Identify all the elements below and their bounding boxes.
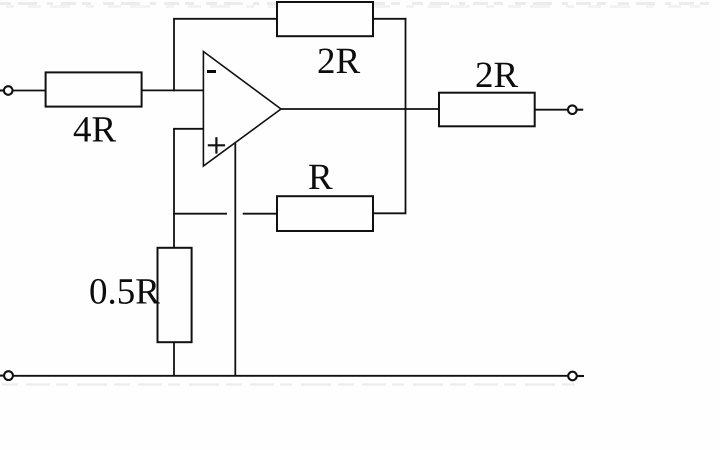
wire op-amp output to 2R output resistor <box>281 108 439 110</box>
wire 2R output to output terminal <box>535 109 568 111</box>
wire 0.5R bottom to rail <box>173 342 175 376</box>
input terminal (left circle) <box>0 86 13 95</box>
wire input terminal to 4R <box>13 90 46 92</box>
label 4R <box>74 117 116 141</box>
resistor R body <box>277 196 373 231</box>
wire to op-amp non-inverting input <box>173 128 203 130</box>
resistor 0.5R body (vertical) <box>158 248 192 342</box>
scan artifact: faint dashed strip along top edge <box>0 4 718 7</box>
op-amp U1 triangle <box>203 52 281 167</box>
wire right feedback drop (vertical at x=405.5) <box>405 18 407 214</box>
label 2R feedback <box>319 49 360 74</box>
wire top feedback right segment <box>373 18 406 20</box>
wire R to right feedback drop <box>373 212 406 214</box>
wire hanging from op-amp lower edge down to bottom rail (x=235.3) <box>234 143 236 377</box>
label 2R output <box>477 63 518 88</box>
wire feedback riser (vertical at x=174) <box>173 19 175 92</box>
wire bottom rail <box>13 375 568 377</box>
label R <box>309 165 333 189</box>
scan artifact: faint shadow under bottom rail <box>2 383 575 386</box>
resistor 4R body <box>46 72 142 106</box>
wire vertical from + input node down to 0.5R (x=174) <box>173 129 175 249</box>
wire 4R to op-amp inverting input <box>142 89 204 91</box>
wire top feedback left segment <box>173 18 277 20</box>
resistor 2R output body <box>439 93 535 127</box>
bottom-left terminal circle <box>0 371 13 380</box>
label 0.5R <box>90 279 159 304</box>
wire R-feedback left segment 2 (after crossing gap) <box>243 213 277 215</box>
op-amp non-inverting input plus sign <box>208 137 225 153</box>
bottom-right terminal circle <box>568 372 584 381</box>
output terminal (right circle) <box>568 105 583 114</box>
wire R-feedback left segment 1 (from x=174 node) <box>173 213 227 215</box>
resistor 2R feedback body <box>277 2 373 36</box>
op-amp inverting input minus sign <box>207 70 216 73</box>
